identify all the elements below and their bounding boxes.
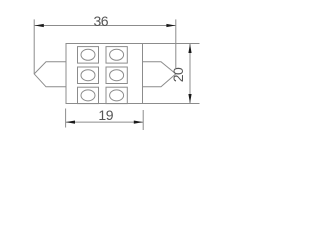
svg-text:19: 19 — [98, 107, 113, 123]
svg-text:36: 36 — [94, 13, 109, 29]
svg-text:20: 20 — [170, 67, 186, 82]
